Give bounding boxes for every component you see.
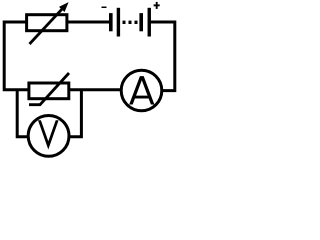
thermistor RT1 bent line bbox=[29, 73, 69, 105]
battery BT1 positive plate (right tall bar) bbox=[148, 8, 151, 37]
battery BT1 negative plate (right short bar) bbox=[139, 13, 143, 31]
battery BT1 positive plate (left tall bar) bbox=[117, 8, 120, 37]
thermistor RT1 body bbox=[29, 83, 69, 99]
resistor R1 arrow shaft bbox=[30, 9, 63, 44]
wire: rheostat to battery (top) bbox=[67, 21, 111, 24]
battery BT1 negative plate (left short bar) bbox=[109, 13, 113, 31]
ammeter letter A bbox=[129, 76, 154, 104]
resistor R1 (rheostat) body bbox=[27, 15, 67, 31]
wire: voltmeter loop left vertical + bottom-left bbox=[17, 89, 29, 137]
wire: top-left corner, left vertical, middle-left wire bbox=[4, 22, 29, 90]
battery plus label bbox=[154, 4, 160, 6]
battery dots (more cells) bbox=[123, 21, 126, 24]
ammeter U1 circle bbox=[121, 70, 162, 111]
voltmeter letter V bbox=[38, 120, 59, 149]
wire: voltmeter loop right vertical + bottom-right bbox=[69, 89, 82, 137]
battery minus label bbox=[102, 7, 107, 9]
wire: battery to right vertical, down, into ammeter bbox=[149, 22, 175, 91]
resistor R1 arrowhead bbox=[59, 2, 69, 12]
wire: thermistor to ammeter (middle) bbox=[67, 88, 123, 91]
voltmeter U2 circle bbox=[28, 115, 69, 156]
